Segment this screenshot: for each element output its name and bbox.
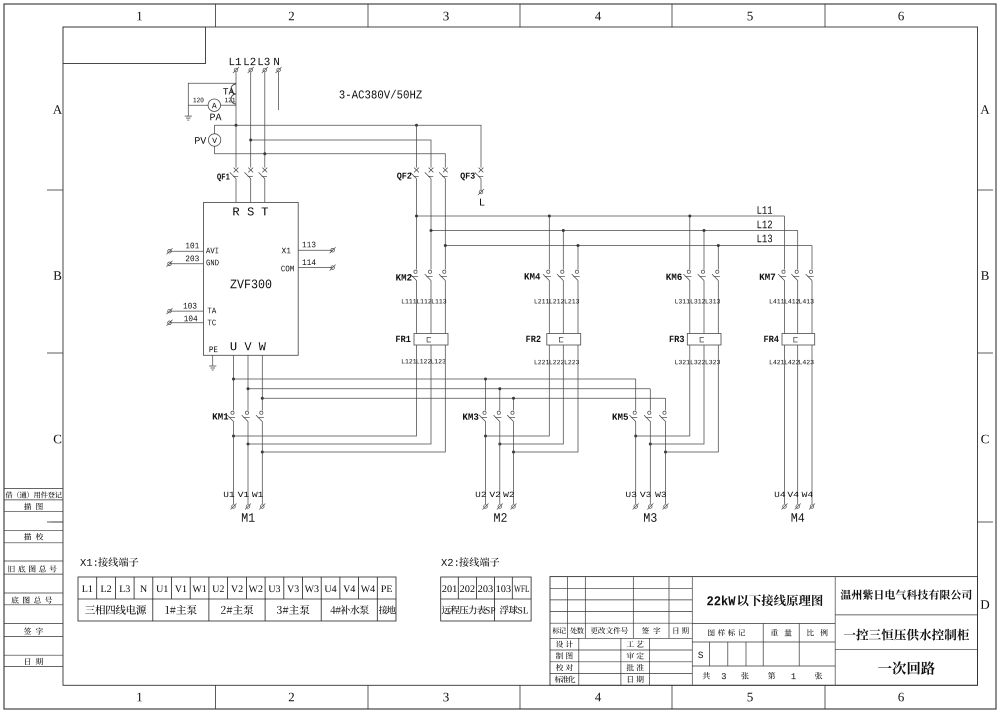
terminal L (478, 189, 484, 206)
node L3 terminal (259, 58, 270, 73)
junction M3 phase U (634, 435, 637, 438)
wire line2 L2 to QF2 (251, 140, 431, 168)
wire L11 to KM7 (784, 216, 786, 270)
inverter pin label COM (281, 266, 294, 272)
wire QF2 pole1 feeder (416, 125, 418, 167)
title block outline (550, 577, 978, 686)
wire PE drop (212, 355, 214, 366)
ground at PE (209, 366, 216, 370)
ammeter PA (208, 99, 221, 120)
inverter U1 ZVF300 box (204, 203, 299, 356)
terminal 113 wire (298, 242, 335, 254)
signature table rows (550, 650, 692, 674)
wire L1 down to QF1 (235, 72, 237, 168)
wire KM6 to FR3 (690, 281, 719, 334)
contactor KM4 (525, 270, 580, 280)
label 121 (225, 98, 235, 103)
signature label 日期 (628, 676, 644, 683)
node labels L221 L222 L223 (535, 360, 579, 364)
contactor KM1 (213, 411, 264, 421)
contactor KM3 (463, 411, 515, 421)
junction L13/KM2 (444, 244, 447, 247)
drawing title 22kW以下接线原理图 (707, 595, 822, 607)
label X1:接线端子 (80, 557, 138, 567)
node L2 terminal (244, 58, 255, 73)
header 重量 (771, 629, 792, 636)
inverter pin label GND (206, 260, 218, 266)
signature label 审定 (627, 652, 644, 659)
first-sheet block (63, 27, 206, 64)
wire L11 to KM6 (689, 216, 691, 270)
node L1 terminal (230, 58, 241, 73)
node labels L111 L112 L113 (402, 299, 446, 303)
terminal table X2 row2 labels (442, 605, 528, 614)
junction bus/KM3 W (512, 397, 515, 400)
ruler column ticks (215, 4, 825, 709)
title middle rows (692, 624, 835, 667)
title header cells (763, 624, 799, 667)
product name 一控三恒压供水控制柜 (844, 629, 969, 641)
signature label 工艺 (627, 641, 644, 648)
terminal 104 wire (167, 316, 204, 326)
motor M2 (476, 492, 517, 522)
revision table rows (550, 588, 692, 638)
terminal table X1 row2 labels (85, 605, 396, 615)
breaker QF3 (460, 168, 483, 181)
voltmeter PV (195, 134, 221, 146)
node labels L321 L322 L323 (675, 360, 720, 364)
terminal table X2 row1 labels (442, 585, 529, 592)
left margin label 描图 (24, 503, 43, 510)
junction L3/line3 (263, 152, 266, 155)
revision header 签字 (642, 627, 661, 634)
header 比例 (807, 629, 827, 636)
wire N stub (278, 72, 280, 110)
thermal relay FR3 (670, 334, 721, 346)
sheet count row 共3张第1张 (703, 672, 823, 680)
wire KM7 to FR4 (785, 281, 813, 334)
ruler column numbers top (137, 12, 904, 21)
wire U drop (233, 355, 235, 410)
wire KM4 to FR2 (549, 281, 578, 334)
left margin table rows (4, 489, 63, 667)
wire FR1 merge to M1 (234, 345, 446, 452)
mark cells (710, 642, 747, 666)
thermal relay FR4 (764, 334, 814, 346)
revision header 标记 (553, 627, 566, 634)
bus L13 (445, 235, 812, 246)
junction M1 phase W (261, 451, 264, 454)
junction L12/KM6 (703, 229, 706, 232)
wire TA secondary loop (188, 83, 236, 105)
contactor KM5 (613, 411, 668, 421)
junction M3 phase W (664, 451, 667, 454)
signature label 批准 (627, 664, 644, 671)
node labels L121 L122 L123 (402, 359, 446, 363)
motor M1 (224, 492, 265, 522)
wire QF1 to VFD R S T (236, 179, 265, 203)
junction U/bus (232, 378, 235, 381)
thermal relay FR1 (396, 334, 448, 346)
junction L11/KM2 (415, 215, 418, 218)
wire FR3 merge to M3 (636, 345, 719, 452)
junction L13/KM4 (577, 244, 580, 247)
sheet name 一次回路 (878, 661, 935, 675)
left margin label 签字 (24, 628, 43, 635)
wire PV top to QF3 feeder (215, 125, 481, 167)
junction M2 phase V (498, 443, 501, 446)
breaker QF1 (217, 168, 267, 182)
left margin label 日期 (25, 658, 43, 665)
contactor KM7 (760, 270, 814, 280)
wire L11 to KM4 (548, 216, 550, 270)
junction M1 phase U (232, 435, 235, 438)
wire QF2 to KM2 (417, 179, 446, 270)
node labels L421 L422 L423 (770, 360, 814, 364)
motor M3 (626, 492, 668, 522)
label 3-AC380V/50HZ (340, 90, 422, 99)
wire L2 down to QF1 (250, 72, 252, 168)
ruler column numbers bottom (137, 693, 904, 702)
signature label 制图 (556, 652, 573, 659)
thermal relay FR2 (526, 334, 580, 346)
left margin label 描校 (24, 533, 43, 540)
junction M2 phase W (512, 451, 515, 454)
junction bus/KM3 U (484, 378, 487, 381)
revision header 日期 (674, 627, 689, 634)
inverter pin label TA (208, 308, 217, 314)
signature label 标准化 (555, 676, 576, 683)
terminal table X1 grid (78, 577, 396, 621)
terminal 114 wire (298, 259, 335, 270)
ruler row letters right (980, 105, 989, 609)
ground at PA (185, 116, 192, 120)
left margin label 旧底图总号 (9, 565, 57, 572)
junction L2/line2 (249, 139, 252, 142)
left margin label 借（通）用件登记 (6, 491, 62, 498)
wire L13 to KM6 (717, 246, 719, 270)
wire PA ground drop (187, 105, 189, 116)
junction L13/KM6 (717, 244, 720, 247)
signature label 校对 (556, 664, 573, 671)
junction bus/KM3 V (498, 387, 501, 390)
wire L3 down to QF1 (264, 72, 266, 168)
terminal table X1 row1 labels (82, 585, 392, 592)
header 图样标记 (708, 629, 745, 636)
wire bus to KM3 (486, 379, 514, 411)
left margin C/D tick (51, 521, 63, 523)
revision table columns (568, 577, 670, 639)
junction W/bus (261, 397, 264, 400)
wire L12 to KM7 (797, 231, 799, 270)
junction M2 phase U (484, 435, 487, 438)
junction M3 phase V (649, 443, 652, 446)
junction L11/KM4 (548, 215, 551, 218)
left margin label 底图总号 (11, 596, 52, 603)
terminal 103 wire (167, 303, 204, 314)
wire KM2 to FR1 (417, 281, 446, 334)
bus L11 (417, 206, 785, 216)
bus V output (248, 388, 650, 390)
revision header 更改文件号 (591, 627, 628, 634)
wire KM5 to M3 (636, 422, 666, 505)
wire W drop (261, 355, 263, 410)
company name 温州紫日电气科技有限公司 (841, 589, 972, 599)
inverter pin label PE (210, 347, 218, 353)
wire FR4 to M4 (785, 345, 813, 504)
node labels L411 L412 L413 (770, 299, 814, 303)
terminal table X2 grid (441, 577, 531, 621)
wire V drop (247, 355, 249, 410)
junction L1/line1 (235, 124, 238, 127)
wire L12 to KM6 (703, 231, 705, 270)
current transformer TA (223, 84, 236, 104)
motor M4 (775, 492, 815, 522)
inverter pin labels R S T (233, 207, 268, 215)
node N terminal (274, 58, 281, 73)
signature table columns (579, 638, 650, 685)
wire L13 to KM7 (811, 246, 813, 270)
inverter pin label TC (208, 320, 216, 326)
wire L12 to KM4 (562, 231, 564, 270)
junction L12/KM2 (430, 229, 433, 232)
wire bus to KM5 (636, 379, 666, 411)
node labels L211 L212 L213 (535, 299, 579, 303)
mark letter S (698, 652, 703, 659)
contactor KM6 (666, 270, 720, 280)
inverter name ZVF300 (230, 280, 271, 289)
breaker QF2 (397, 168, 448, 181)
title block section dividers (692, 577, 835, 686)
ruler row ticks (47, 190, 993, 522)
company cell rows (835, 615, 977, 650)
wire KM3 to M2 (486, 422, 514, 505)
junction QF2 pole1/line1 (415, 124, 418, 127)
junction V/bus (247, 387, 250, 390)
ruler row letters left (53, 105, 62, 443)
junction M1 phase V (247, 443, 250, 446)
junction L11/KM6 (688, 215, 691, 218)
wire QF3 to terminal L (480, 179, 482, 190)
terminal 203 wire (167, 256, 204, 267)
inverter pin labels U V W (231, 342, 266, 350)
label 120 (193, 98, 203, 103)
contactor KM2 (396, 270, 447, 280)
revision header 处数 (570, 627, 584, 634)
terminal 101 wire (167, 243, 204, 255)
bus W output (262, 397, 665, 399)
label X2:接线端子 (441, 557, 499, 567)
bus U output (234, 378, 636, 380)
wire PV bottom line3 to QF2 (215, 146, 446, 167)
junction L12/KM4 (562, 229, 565, 232)
wire L13 to KM4 (577, 246, 579, 270)
inverter pin label AVI (206, 248, 218, 254)
wire KM1 to M1 (234, 422, 263, 505)
inverter pin label X1 (282, 248, 291, 254)
bus L12 (431, 221, 798, 231)
wire FR2 merge to M2 (486, 345, 579, 452)
signature label 设计 (556, 641, 573, 648)
node labels L311 L312 L313 (675, 299, 720, 303)
